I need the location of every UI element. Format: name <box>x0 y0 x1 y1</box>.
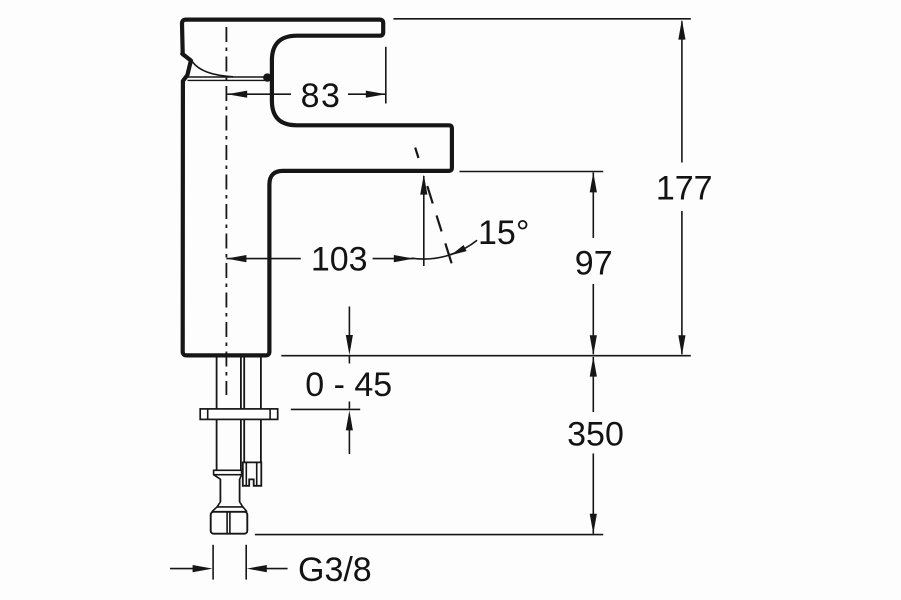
second hose right line <box>260 358 262 463</box>
G3/8 right arrow line <box>265 568 288 570</box>
threaded shank left line <box>216 358 218 471</box>
hose tube left <box>219 479 221 502</box>
dimension 177 line lower segment <box>681 211 683 354</box>
dimension 350 line lower segment <box>592 454 594 534</box>
hose right line <box>243 358 245 471</box>
dimension 177 top arrow <box>678 20 685 40</box>
nut bevel right <box>243 507 247 512</box>
dimension 83 line right segment <box>348 93 386 95</box>
aerator tilted axis (dashed) <box>415 148 451 264</box>
svg-text:350: 350 <box>567 416 624 454</box>
svg-text:83: 83 <box>301 77 342 115</box>
flange right edge tick <box>269 409 271 420</box>
mounting plane extension line <box>281 355 691 357</box>
nut bevel left <box>212 507 217 512</box>
aerator axis vertical reference line <box>423 176 425 266</box>
lever/body seam upper line <box>188 76 265 78</box>
hose end flare <box>217 502 243 507</box>
hose collar <box>214 470 242 474</box>
second hose cut stub <box>243 462 261 485</box>
dimension 103 line left segment <box>226 258 300 260</box>
G3/8 right extension tick <box>245 545 247 580</box>
15 degree arc arrow <box>451 245 467 255</box>
svg-text:0 - 45: 0 - 45 <box>305 366 392 404</box>
dimension 350 bottom arrow <box>590 514 597 534</box>
dimension 0-45 lower overshoot <box>348 402 350 409</box>
svg-text:15°: 15° <box>478 214 529 252</box>
dimension 103 left arrow <box>226 255 246 262</box>
dimension 97 line upper segment <box>592 172 594 238</box>
dimension 350 line upper segment <box>592 357 594 412</box>
dimension 0-45 upper arrow line <box>348 307 350 337</box>
top extension line <box>393 18 690 20</box>
hose inner line <box>240 358 242 471</box>
dimension 83 right arrow <box>366 91 386 98</box>
G3/8 left arrow <box>193 565 213 572</box>
G3/8 left extension tick <box>212 545 214 580</box>
G3/8 right arrow <box>247 565 267 572</box>
dimension 0-45 lower arrow line <box>348 430 350 454</box>
spout outlet extension line (97) <box>460 171 604 173</box>
collar taper left <box>214 475 221 480</box>
dimension 0-45 lower arrow <box>346 410 353 430</box>
dimension 83 left arrow <box>227 91 247 98</box>
hose nut <box>211 512 248 534</box>
0-45 lower boundary line <box>291 408 360 410</box>
mounting flange <box>200 409 278 420</box>
15 degree angle arc <box>412 240 478 259</box>
dimension 97 bottom arrow <box>590 335 597 355</box>
dimension 0-45 upper arrow <box>346 335 353 355</box>
svg-text:G3/8: G3/8 <box>298 551 372 589</box>
aerator reference up arrow <box>420 175 427 195</box>
lever underside curve <box>192 62 233 77</box>
nut facet line left <box>226 512 228 534</box>
vertical center axis (dash-dot) <box>225 27 227 395</box>
dimension 97 line lower segment <box>592 284 594 354</box>
dimension 177 bottom arrow <box>678 335 685 355</box>
dimension 83 line left segment <box>227 93 291 95</box>
svg-text:97: 97 <box>575 245 613 283</box>
dimension 83 extension tick <box>385 47 387 104</box>
nut facet line right <box>229 512 231 534</box>
svg-text:103: 103 <box>311 240 368 278</box>
dimension 97 top arrow <box>590 172 597 192</box>
dimension 350 top arrow <box>590 357 597 377</box>
dimension 103 line right segment <box>373 258 414 260</box>
flange left edge tick <box>207 409 209 420</box>
stub inner left line <box>245 462 247 485</box>
lever/body seam lower line <box>188 79 265 81</box>
hose tube right <box>239 479 241 502</box>
faucet outline (body, lever, spout) <box>182 20 452 356</box>
collar taper right <box>240 475 242 480</box>
dimension 103 right arrow <box>394 255 414 262</box>
svg-text:177: 177 <box>656 170 713 208</box>
dimension 0-45 upper overshoot <box>348 357 350 364</box>
hose bottom extension line (350) <box>255 534 603 536</box>
G3/8 left arrow line <box>170 568 195 570</box>
dimension 177 line upper segment <box>681 21 683 162</box>
seam junction dot <box>263 73 271 81</box>
stub inner right line <box>256 462 258 485</box>
